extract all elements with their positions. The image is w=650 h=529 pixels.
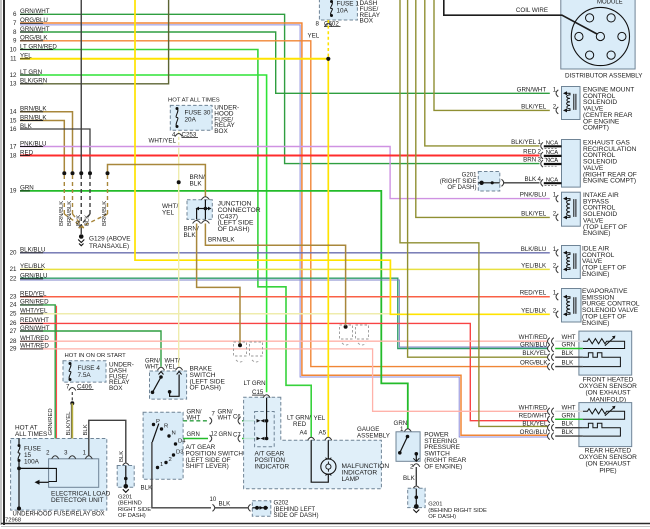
ground G202 box xyxy=(252,501,270,516)
svg-text:10: 10 xyxy=(210,497,217,503)
svg-text:BOX: BOX xyxy=(109,385,123,392)
svg-text:BLK/YEL: BLK/YEL xyxy=(522,421,548,428)
intake air bypass control solenoid valve box xyxy=(562,192,581,226)
svg-text:7.5A: 7.5A xyxy=(78,372,92,379)
svg-text:17: 17 xyxy=(10,143,17,150)
svg-text:BLK/YEL: BLK/YEL xyxy=(66,411,72,436)
svg-text:BLK: BLK xyxy=(562,429,575,436)
A/T switch lever xyxy=(152,424,159,442)
ground G129 symbol xyxy=(80,228,82,234)
svg-text:BOX: BOX xyxy=(214,128,228,135)
svg-text:9: 9 xyxy=(13,38,17,45)
C437 bottom-left connector arc xyxy=(193,221,201,224)
svg-text:BLK: BLK xyxy=(190,180,203,187)
front heated oxygen sensor internal heater xyxy=(583,353,621,367)
junction wire 11 / fuse 1 YEL xyxy=(326,57,330,61)
svg-text:N: N xyxy=(172,431,176,437)
svg-text:WHT: WHT xyxy=(187,415,201,421)
wire 9 ORG/BLK to front O2 xyxy=(20,41,548,367)
BLK/YEL wire to intake air pin 2 xyxy=(416,0,550,217)
PS switch internals xyxy=(406,435,410,439)
svg-text:LAMP: LAMP xyxy=(342,476,361,483)
svg-text:(BEHIND RIGHT SIDE: (BEHIND RIGHT SIDE xyxy=(428,508,487,514)
brake switch left pin arc xyxy=(158,367,165,370)
svg-text:4: 4 xyxy=(172,132,176,139)
ELD output arrow xyxy=(38,481,49,483)
junction below C406 xyxy=(70,401,74,405)
svg-text:GRN/WHT: GRN/WHT xyxy=(517,86,547,93)
svg-text:YEL/BLK: YEL/BLK xyxy=(521,262,547,269)
svg-text:BRN/BLK: BRN/BLK xyxy=(67,201,73,226)
svg-text:DETECTOR UNIT: DETECTOR UNIT xyxy=(51,497,104,504)
malfunction indicator lamp xyxy=(321,459,336,474)
wire 13 BLK/GRN up off page xyxy=(20,0,169,84)
svg-text:BLK/YEL: BLK/YEL xyxy=(521,103,547,110)
svg-text:1: 1 xyxy=(160,462,163,468)
A/T gear position switch box xyxy=(143,412,183,479)
svg-text:BLK: BLK xyxy=(85,215,91,226)
svg-text:19: 19 xyxy=(10,188,17,195)
C437 internal bus xyxy=(204,200,206,209)
svg-text:WHT/YEL: WHT/YEL xyxy=(149,138,177,145)
C437 left branch BRN/BLK wire to inline connector xyxy=(197,224,240,344)
wire 26 RED/WHT to rear O2 pin 2 xyxy=(20,323,548,420)
junction on WHT/YEL wire xyxy=(177,180,181,184)
inline connector B dot xyxy=(344,325,348,329)
wire 21 YEL/BLK to idle air pin 2 xyxy=(20,268,550,270)
svg-text:BLK: BLK xyxy=(562,360,575,367)
wire 10 LT GRN/RED to gauge A4 xyxy=(20,50,311,438)
G129 bundle junction dot x=107.5 xyxy=(106,171,110,175)
fuse 30 symbol xyxy=(176,107,179,110)
svg-text:LT GRN: LT GRN xyxy=(244,380,266,387)
ELD ground-side dot xyxy=(17,506,21,510)
coil wire xyxy=(444,0,597,34)
G129 bundle junction dot x=90 xyxy=(88,171,92,175)
BLK/YEL wire to front O2 pin 3 xyxy=(408,0,548,357)
svg-text:BRN/BLK: BRN/BLK xyxy=(102,201,108,226)
svg-text:UNDERHOOD FUSE/RELAY BOX: UNDERHOOD FUSE/RELAY BOX xyxy=(13,512,105,518)
distributor cap circle xyxy=(571,7,629,65)
svg-text:ASSEMBLY: ASSEMBLY xyxy=(357,433,390,440)
BLK/YEL wire to rear O2 pin 3 xyxy=(400,0,548,426)
ground G201 (behind right side of dash) box xyxy=(408,488,425,507)
svg-text:RED/WHT: RED/WHT xyxy=(519,412,548,419)
wire 23 RED/YEL to evap pin 1 xyxy=(20,296,550,298)
svg-text:DISTRIBUTOR ASSEMBLY: DISTRIBUTOR ASSEMBLY xyxy=(565,73,643,80)
svg-text:BLK: BLK xyxy=(219,501,232,508)
GRN/WHT wire A/T switch to indicator C6 xyxy=(183,420,208,422)
svg-text:12: 12 xyxy=(10,72,17,79)
svg-text:GRN/: GRN/ xyxy=(218,409,233,415)
svg-text:23: 23 xyxy=(10,294,17,301)
svg-text:WHT: WHT xyxy=(562,404,576,411)
C406 connector arc xyxy=(69,388,76,391)
svg-text:WHT: WHT xyxy=(562,334,576,341)
engine mount control solenoid valve box xyxy=(562,87,581,120)
svg-text:BLK: BLK xyxy=(562,421,575,428)
BLK wire from top to G129 bundle xyxy=(80,0,82,172)
svg-text:26: 26 xyxy=(10,320,17,327)
fuse 15 junction dot xyxy=(17,467,21,471)
svg-text:BLK: BLK xyxy=(141,485,154,492)
svg-text:ALL TIMES: ALL TIMES xyxy=(15,431,47,438)
svg-text:A4: A4 xyxy=(300,429,308,436)
wire 7 ORG/BLU (two-tone pair) to rear O2 pin 4 xyxy=(20,23,548,435)
svg-text:28: 28 xyxy=(10,338,17,345)
svg-text:OF ENGINE): OF ENGINE) xyxy=(424,463,462,470)
svg-text:COMPT): COMPT) xyxy=(583,125,609,132)
svg-text:(BEHIND: (BEHIND xyxy=(118,501,142,507)
svg-text:18: 18 xyxy=(10,152,17,159)
dashed wire below C406 xyxy=(71,392,73,403)
svg-text:OF DASH): OF DASH) xyxy=(190,385,222,392)
svg-text:14: 14 xyxy=(10,109,17,116)
inline connector A dot xyxy=(238,343,242,347)
svg-text:BLK/YEL: BLK/YEL xyxy=(511,139,537,146)
svg-text:SHIFT LEVER): SHIFT LEVER) xyxy=(186,463,229,470)
rear heated oxygen sensor internal sensor resistor xyxy=(583,409,625,420)
svg-text:WHT/RED: WHT/RED xyxy=(519,404,548,411)
svg-text:BLK: BLK xyxy=(184,232,197,239)
svg-text:24: 24 xyxy=(10,302,17,309)
brake switch internals xyxy=(159,372,164,375)
wire 22 GRN/BLU (two-tone pair) to front O2 pin 2 xyxy=(20,278,548,348)
C253 connector arc xyxy=(175,134,182,137)
svg-text:WHT/RED: WHT/RED xyxy=(519,334,548,341)
svg-text:C7: C7 xyxy=(233,433,241,439)
svg-text:ENGINE): ENGINE) xyxy=(582,320,609,327)
front heated oxygen sensor internal sensor resistor xyxy=(583,339,625,349)
G129 bundle junction dot x=81.25 xyxy=(79,171,83,175)
BRN/BLK wire from C437 to G129 bundle xyxy=(108,165,206,197)
svg-text:YEL: YEL xyxy=(308,33,320,40)
G201 right connector arc xyxy=(413,486,420,489)
wire 20 BLK/BLU to idle air pin 1 xyxy=(20,252,550,254)
svg-text:25: 25 xyxy=(10,311,17,318)
svg-text:BLK: BLK xyxy=(83,424,89,435)
svg-text:G129 (ABOVE: G129 (ABOVE xyxy=(89,236,131,243)
svg-text:8: 8 xyxy=(13,29,17,36)
svg-text:A5: A5 xyxy=(319,429,327,436)
svg-text:TRANSAXLE): TRANSAXLE) xyxy=(89,243,129,250)
svg-text:FUSE 1: FUSE 1 xyxy=(337,1,360,8)
svg-text:11: 11 xyxy=(10,56,17,63)
svg-text:BLK: BLK xyxy=(524,176,537,183)
svg-text:WHT/: WHT/ xyxy=(165,359,181,365)
svg-text:27: 27 xyxy=(10,328,17,335)
rear heated oxygen sensor box xyxy=(579,403,632,447)
G129 bundle junction dot x=64.3 xyxy=(62,171,66,175)
junction connector C437 box xyxy=(187,200,212,220)
svg-text:15: 15 xyxy=(10,117,17,124)
wire 24 GRN/RED (pair) down to ELD pin 2 xyxy=(20,305,55,453)
brake switch right pin arc xyxy=(176,367,183,370)
svg-text:HOT IN ON OR START: HOT IN ON OR START xyxy=(65,353,127,359)
svg-text:10: 10 xyxy=(10,46,17,53)
svg-text:G201: G201 xyxy=(428,502,442,508)
YEL wire from fuse 1 down to gauge A5 xyxy=(327,59,329,438)
indicator internal wiring xyxy=(266,398,268,439)
distributor assembly box xyxy=(561,0,635,69)
wire 15 BRN/BLK to G129 bundle xyxy=(20,121,64,172)
wire 17 PNK/BLU to intake air pin 1 xyxy=(20,147,550,199)
svg-text:BLK/YEL: BLK/YEL xyxy=(521,210,547,217)
svg-text:YEL: YEL xyxy=(314,415,326,422)
idle air control valve box xyxy=(562,246,581,279)
svg-text:GRN: GRN xyxy=(562,412,576,419)
svg-text:BRN/BLK: BRN/BLK xyxy=(59,201,65,226)
svg-text:RIGHT SIDE: RIGHT SIDE xyxy=(118,507,151,513)
svg-text:RED: RED xyxy=(293,421,307,428)
svg-text:BLK: BLK xyxy=(76,215,82,226)
fuse 1 box (dash fuse/relay box) xyxy=(319,0,357,20)
svg-text:ENGINE): ENGINE) xyxy=(582,271,609,278)
svg-text:GRN: GRN xyxy=(562,342,576,349)
EGR control solenoid valve box xyxy=(562,140,581,188)
rear O2 RED/WHT-to-GRN stub override xyxy=(555,418,583,420)
fuse 1 symbol xyxy=(330,0,333,3)
svg-text:YEL: YEL xyxy=(162,209,175,216)
svg-text:8: 8 xyxy=(316,21,320,28)
svg-text:22: 22 xyxy=(10,276,17,283)
svg-text:WHT: WHT xyxy=(218,415,232,421)
svg-text:RED: RED xyxy=(523,149,537,156)
GRN wire A/T switch to indicator C7 xyxy=(183,438,208,440)
svg-text:72968: 72968 xyxy=(5,518,21,524)
svg-text:7: 7 xyxy=(13,20,17,27)
svg-text:29: 29 xyxy=(10,346,17,353)
svg-text:HOT AT ALL TIMES: HOT AT ALL TIMES xyxy=(168,98,220,104)
PS pin 1 arc xyxy=(404,429,411,432)
rear heated oxygen sensor internal heater xyxy=(583,423,621,436)
svg-text:2: 2 xyxy=(410,464,414,471)
A/T switch common BLK wire to G202 xyxy=(152,442,211,508)
page bottom border xyxy=(1,524,650,527)
brake switch box xyxy=(150,371,187,399)
svg-text:BRN/BLK: BRN/BLK xyxy=(208,237,235,244)
svg-text:GRN: GRN xyxy=(219,432,232,438)
svg-text:OF DASH): OF DASH) xyxy=(218,226,250,233)
fuse 15 wire and symbol xyxy=(18,439,20,445)
wire 28 WHT/RED to front O2 pin 1 xyxy=(20,340,548,342)
svg-text:COIL WIRE: COIL WIRE xyxy=(516,7,548,14)
svg-text:BLK/YEL: BLK/YEL xyxy=(522,350,548,357)
wire 8 GRN/WHT to engine mount pin 1 xyxy=(20,32,550,93)
C437 right branch BRN/BLK wire to inline connector xyxy=(205,224,345,326)
C437 top connector arc xyxy=(201,197,209,200)
power steering pressure switch box xyxy=(396,432,420,462)
svg-text:GRN/: GRN/ xyxy=(187,409,202,415)
svg-text:6: 6 xyxy=(13,11,17,18)
svg-text:10A: 10A xyxy=(337,8,349,15)
svg-text:ENGINE): ENGINE) xyxy=(583,230,610,237)
underhood fuse/relay box dashed outline (ELD) xyxy=(11,439,107,511)
ELD pin 1 BLK wire to G201 left xyxy=(89,420,126,462)
svg-text:YEL: YEL xyxy=(165,365,177,371)
G129 bundle junction dot x=72.5 xyxy=(71,171,75,175)
BLK/YEL wire to EGR pin 1 xyxy=(425,0,540,146)
page left border xyxy=(1,0,4,525)
ELD inner unit box xyxy=(49,459,99,488)
svg-text:G201: G201 xyxy=(118,495,132,501)
WHT/YEL wire down to brake switch xyxy=(178,150,180,367)
wire 27 GRN/WHT to brake switch xyxy=(20,331,161,367)
svg-text:WHT: WHT xyxy=(145,365,159,371)
svg-text:GRN/BLU: GRN/BLU xyxy=(520,342,548,349)
svg-text:13: 13 xyxy=(10,81,17,88)
wire 12 LT GRN to gauge C15 xyxy=(20,75,267,392)
svg-text:12: 12 xyxy=(211,432,218,438)
svg-text:BLK: BLK xyxy=(119,451,125,462)
svg-text:BLK: BLK xyxy=(562,350,575,357)
ground G201 (left, behind right side of dash) box xyxy=(117,466,134,488)
left wire label underlines xyxy=(20,13,43,15)
svg-text:BRN: BRN xyxy=(523,157,536,164)
svg-text:GRN/: GRN/ xyxy=(145,359,160,365)
distributor cap terminals xyxy=(607,14,615,22)
fuse 4 box (under-dash fuse/relay box) xyxy=(63,361,106,382)
svg-text:BOX: BOX xyxy=(360,18,374,25)
svg-text:OF DASH): OF DASH) xyxy=(118,513,146,519)
wire 16 BLK to G129 bundle xyxy=(20,129,90,172)
svg-text:C6: C6 xyxy=(233,414,241,420)
G201 left connector arc xyxy=(122,463,129,466)
G201 mid wire and dots xyxy=(478,182,500,184)
wire 14 BRN/BLK to G129 bundle xyxy=(20,112,73,172)
wire 11 YEL to fuse 1 junction xyxy=(20,58,328,60)
inline connector B (dashed) xyxy=(340,325,369,345)
svg-text:OF DASH): OF DASH) xyxy=(428,514,456,520)
svg-text:YEL/BLK: YEL/BLK xyxy=(521,307,547,314)
front heated oxygen sensor box xyxy=(579,331,632,375)
ELD internal sense loop xyxy=(19,467,49,469)
svg-text:BLK: BLK xyxy=(403,475,416,482)
svg-text:21: 21 xyxy=(10,266,17,273)
wire 18 RED to EGR pin 2 xyxy=(20,155,540,157)
C437 bottom-right connector arc xyxy=(201,221,209,224)
A/T switch position contacts xyxy=(152,423,155,426)
svg-text:GRN: GRN xyxy=(187,432,200,438)
svg-text:PNK/BLU: PNK/BLU xyxy=(520,192,546,199)
wire 6 GRN/WHT to EGR pin 3 xyxy=(20,14,540,163)
evap purge control solenoid valve box xyxy=(562,289,582,323)
svg-text:PIPE): PIPE) xyxy=(599,467,616,474)
inline connector A (dashed) xyxy=(234,342,263,362)
YEL wire from top via x135 to evap pin 2 xyxy=(135,0,550,314)
svg-text:INDICATOR: INDICATOR xyxy=(255,463,290,470)
G201 connector arc xyxy=(502,179,504,186)
A/T gear position indicator inner dashed box xyxy=(255,412,275,447)
svg-text:ORG/BLU: ORG/BLU xyxy=(520,429,548,436)
svg-text:ENGINE COMPT): ENGINE COMPT) xyxy=(583,178,636,185)
G129 bundle dashed wires converging to ground xyxy=(63,175,65,214)
gauge assembly dashed outline xyxy=(244,397,382,489)
svg-text:RED/YEL: RED/YEL xyxy=(520,290,547,297)
lamp wiring to A4/A5 xyxy=(327,440,329,459)
wire 25 WHT/YEL to evap junction xyxy=(20,313,390,315)
svg-text:GRN/RED: GRN/RED xyxy=(48,408,54,435)
wire 29 WHT/RED to rear O2 pin 1 xyxy=(20,349,548,411)
svg-text:2: 2 xyxy=(169,457,172,463)
fuse 30 box (underhood fuse/relay box) xyxy=(170,105,212,130)
svg-text:20: 20 xyxy=(10,250,17,257)
svg-text:R: R xyxy=(164,424,168,430)
svg-text:BLK/BLU: BLK/BLU xyxy=(521,246,546,253)
wire 19 GRN to power steering switch xyxy=(20,191,408,429)
svg-text:OF DASH): OF DASH) xyxy=(447,184,476,191)
YEL dashed from C602 xyxy=(327,20,329,59)
C602 connector arc xyxy=(325,23,332,26)
ground G201 (right side of dash) box xyxy=(478,172,500,192)
fuse 4 symbol xyxy=(69,362,72,365)
svg-text:MODULE: MODULE xyxy=(597,0,623,5)
svg-text:SIDE OF DASH): SIDE OF DASH) xyxy=(274,512,319,519)
BLK/YEL wire from C406 junction to ELD pin 3 xyxy=(71,403,73,452)
svg-text:20A: 20A xyxy=(185,116,197,123)
svg-text:ORG/BLK: ORG/BLK xyxy=(520,360,548,367)
svg-text:D3: D3 xyxy=(176,450,184,456)
BLK/YEL wire to engine mount pin 2 xyxy=(434,0,550,110)
svg-text:100A: 100A xyxy=(24,459,40,466)
svg-text:16: 16 xyxy=(10,126,17,133)
WHT/YEL dashed below C253 xyxy=(178,132,180,151)
